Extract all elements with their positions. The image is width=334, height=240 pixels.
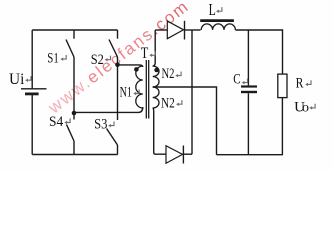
svg-text:S4: S4 xyxy=(49,114,64,130)
svg-text:Ui: Ui xyxy=(9,71,25,88)
svg-text:N2: N2 xyxy=(162,66,175,82)
svg-text:N2: N2 xyxy=(161,95,175,111)
svg-text:N1: N1 xyxy=(120,85,132,101)
svg-text:S1: S1 xyxy=(47,51,59,67)
svg-text:L: L xyxy=(209,0,216,19)
svg-text:R: R xyxy=(296,76,304,92)
svg-text:S3: S3 xyxy=(94,116,107,132)
svg-text:S2: S2 xyxy=(91,52,104,68)
svg-text:T: T xyxy=(141,45,149,62)
svg-text:C: C xyxy=(233,72,240,88)
svg-text:o: o xyxy=(302,101,309,116)
